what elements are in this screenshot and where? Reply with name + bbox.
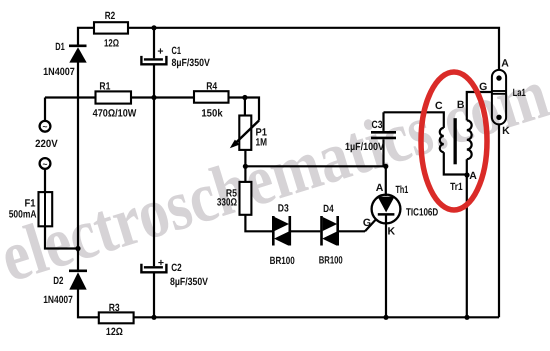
svg-text:A: A [501,58,509,70]
svg-text:K: K [388,226,396,238]
svg-text:330Ω: 330Ω [217,197,237,209]
svg-text:C3: C3 [372,119,383,131]
svg-text:+: + [157,46,163,58]
svg-text:Th1: Th1 [396,184,409,196]
svg-text:A: A [469,170,477,182]
svg-text:470Ω/10W: 470Ω/10W [93,108,137,120]
svg-text:A: A [376,182,384,194]
svg-text:1N4007: 1N4007 [43,66,75,78]
svg-text:500mA: 500mA [9,209,37,221]
svg-text:12Ω: 12Ω [104,38,119,50]
svg-text:1M: 1M [256,137,268,149]
svg-text:R1: R1 [99,81,110,93]
svg-text:R4: R4 [206,81,217,93]
svg-text:1µF/100V: 1µF/100V [345,141,384,153]
svg-text:~: ~ [43,159,48,169]
svg-text:C2: C2 [171,262,182,274]
svg-text:TIC106D: TIC106D [406,207,439,219]
svg-text:D3: D3 [278,203,289,215]
svg-text:R2: R2 [105,10,116,22]
svg-text:8µF/350V: 8µF/350V [170,276,208,288]
svg-text:8µF/350V: 8µF/350V [172,57,210,69]
svg-text:D4: D4 [323,203,334,215]
svg-text:Tr1: Tr1 [450,181,463,193]
svg-text:BR100: BR100 [270,255,295,267]
svg-text:150k: 150k [201,108,222,120]
svg-text:R3: R3 [109,302,120,314]
svg-text:C: C [435,100,443,112]
svg-text:BR100: BR100 [319,254,343,266]
svg-text:D2: D2 [53,275,63,287]
svg-text:1N4007: 1N4007 [43,294,73,306]
svg-text:La1: La1 [513,87,526,99]
svg-text:12Ω: 12Ω [106,326,123,338]
svg-text:220V: 220V [35,138,58,150]
svg-text:G: G [363,217,371,229]
svg-text:C1: C1 [172,45,182,57]
svg-text:B: B [457,99,465,111]
svg-text:G: G [479,81,487,93]
svg-text:~: ~ [43,122,48,132]
svg-text:+: + [158,257,164,269]
svg-text:D1: D1 [55,41,65,53]
svg-text:K: K [502,125,510,137]
